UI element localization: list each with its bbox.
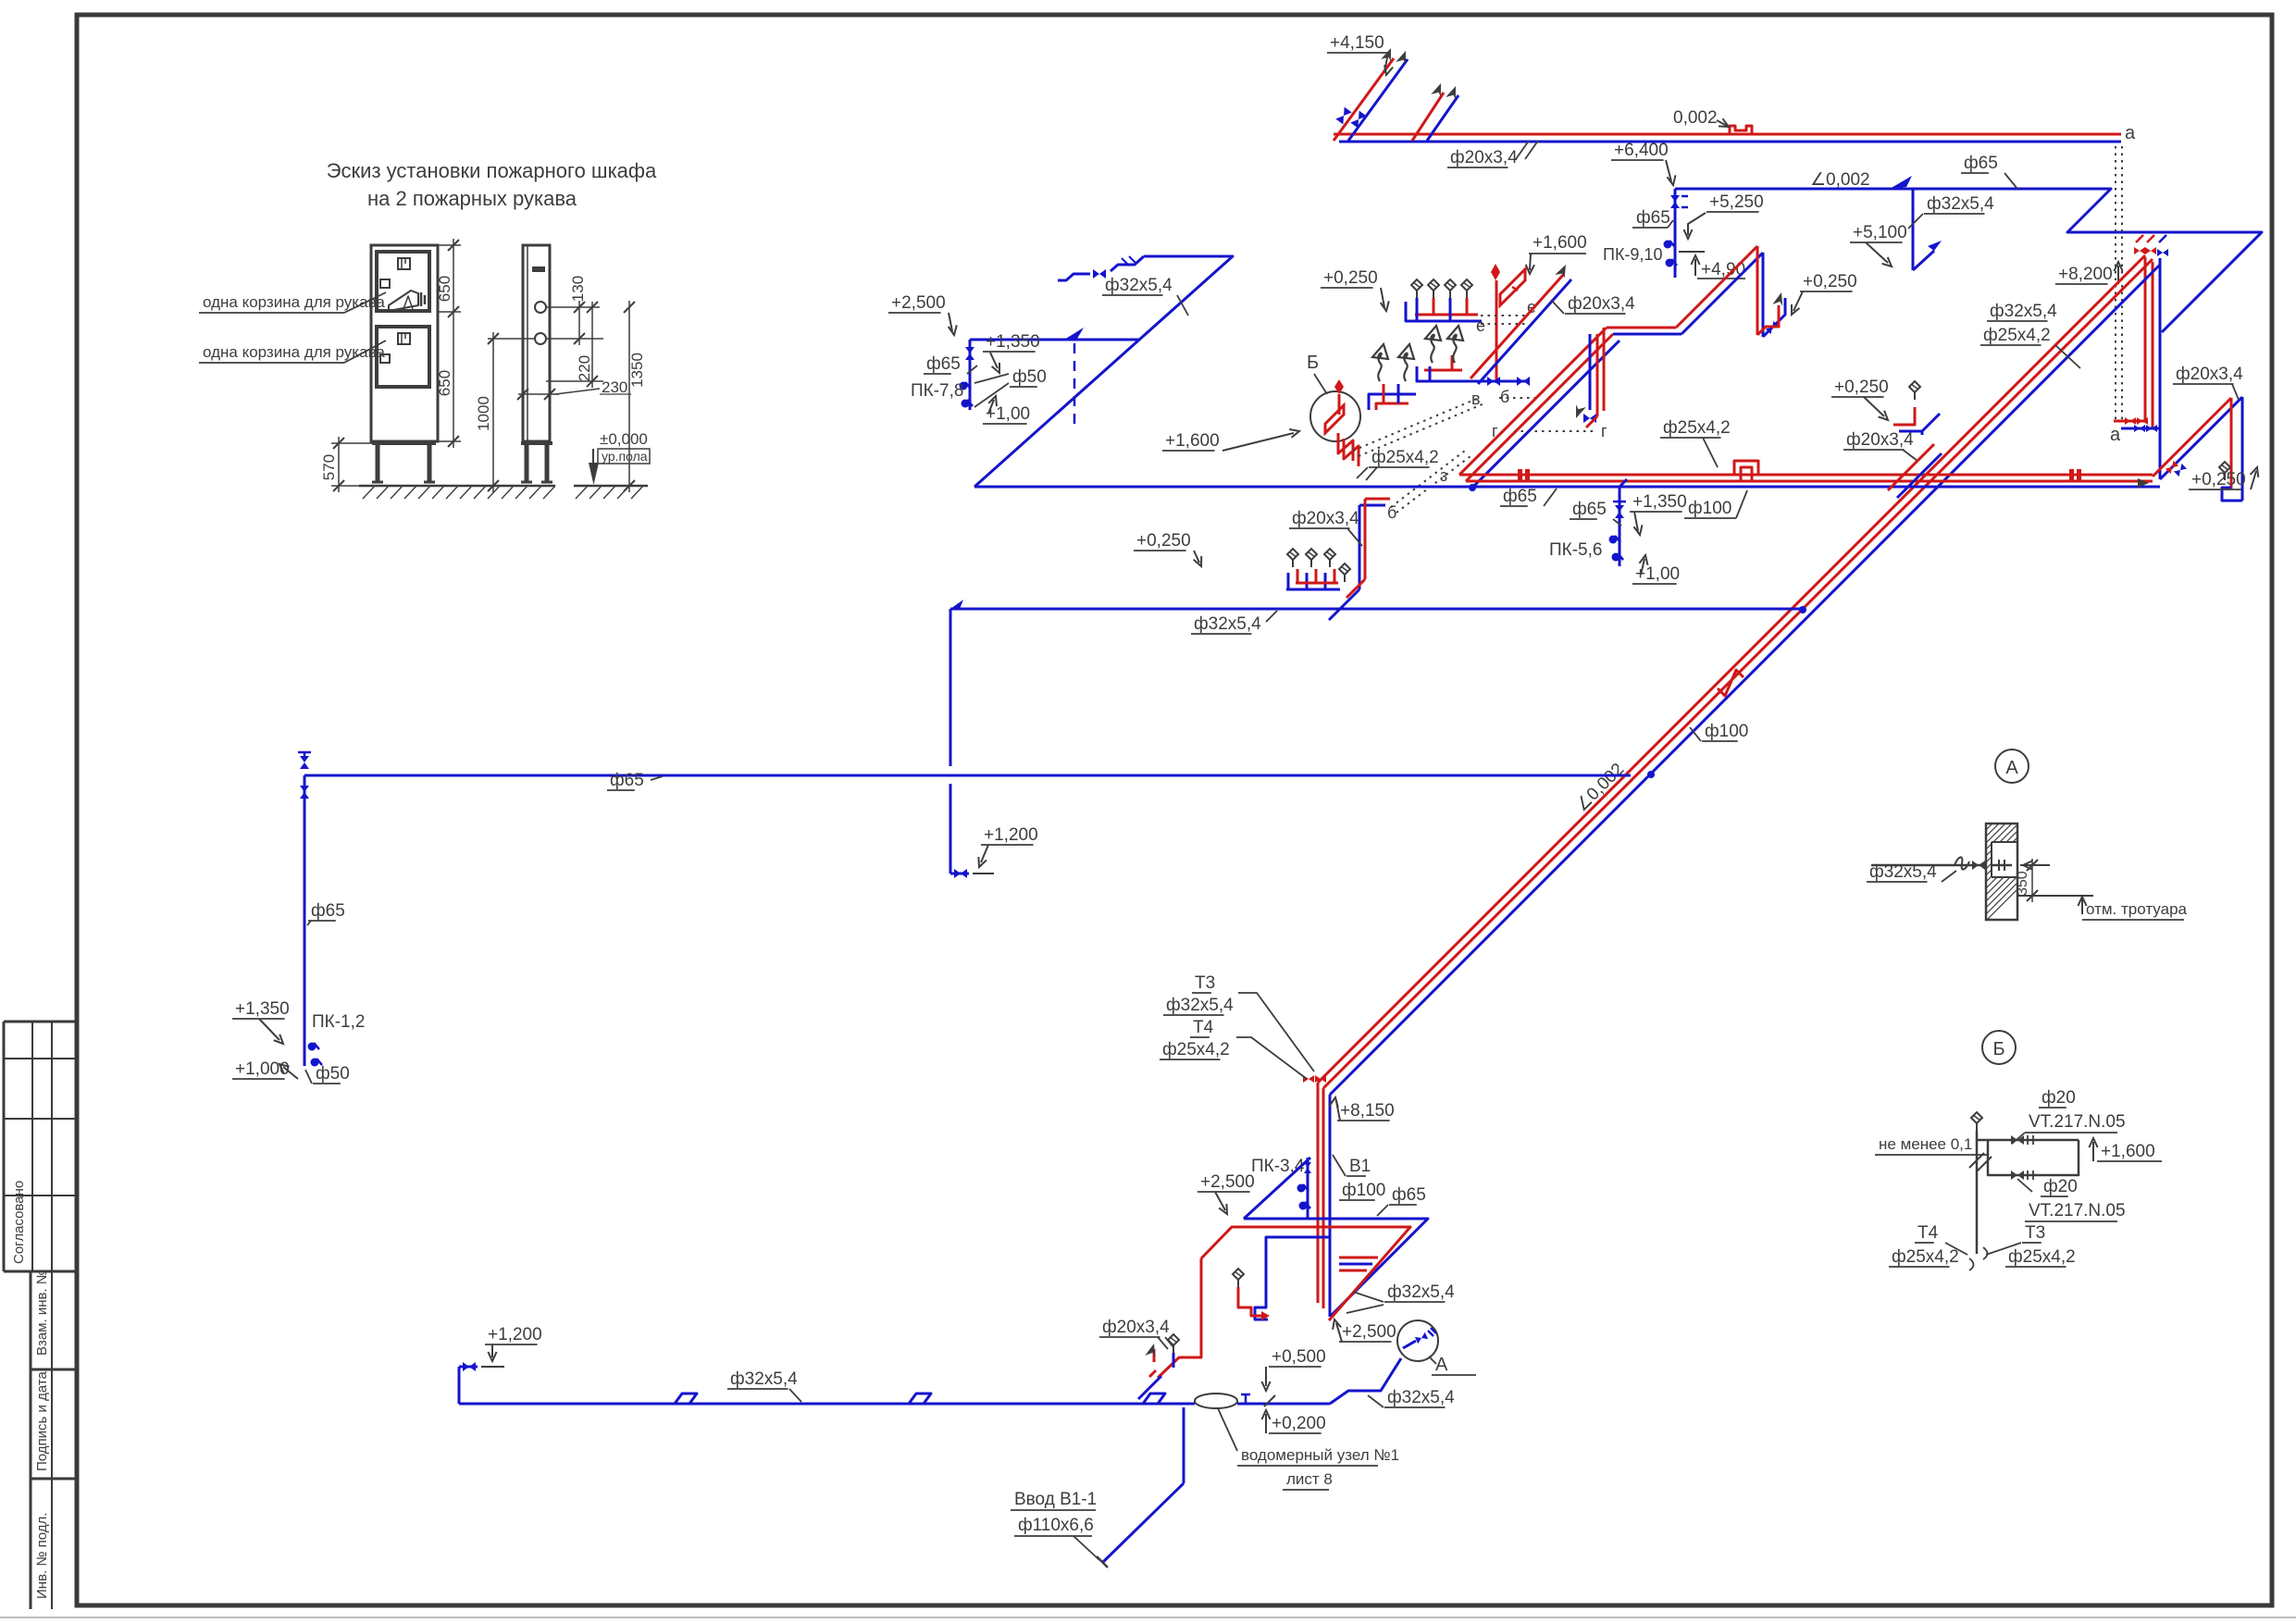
branch with +0,250 near diagonal: [1893, 407, 1915, 425]
pipe B1 ф65 at +6,400: [1675, 189, 2262, 332]
fire cabinet front view: [371, 245, 438, 441]
svg-text:VT.217.N.05: VT.217.N.05: [2029, 1112, 2126, 1132]
svg-text:1350: 1350: [628, 353, 646, 388]
svg-text:б: б: [1387, 503, 1396, 522]
middle manifold with showers: [1417, 366, 1527, 381]
риser group T3/T4/B1 at +8,200 top valves: [2134, 247, 2145, 254]
svg-text:ф50: ф50: [316, 1064, 350, 1084]
riser pair to +4,150 (first): [1334, 58, 1394, 141]
svg-text:ф32х5,4: ф32х5,4: [1387, 1282, 1455, 1302]
отм. тротуара level mark: [2017, 895, 2093, 897]
pipe ф20х3,4 upper pair: [1607, 327, 1676, 329]
svg-text:+1,200: +1,200: [488, 1325, 542, 1344]
svg-text:Согласовано: Согласовано: [11, 1181, 27, 1264]
branch down-left with +0,250 (б point): [1365, 498, 1390, 501]
lower manifold: [1369, 394, 1416, 410]
detail Б circle: [1982, 1031, 2016, 1064]
svg-text:В1: В1: [1349, 1157, 1371, 1176]
diagonal pair to +1,600 outlet: [1471, 274, 1564, 378]
valve on corner: [304, 775, 306, 1066]
svg-text:+1,200: +1,200: [984, 825, 1038, 845]
ground line with hatching: [359, 485, 555, 488]
svg-text:+2,500: +2,500: [1200, 1172, 1255, 1192]
pipe T3/B1 pair top horizontal run: [1334, 133, 2121, 136]
svg-text:не менее 0,1: не менее 0,1: [1879, 1135, 1972, 1153]
svg-text:ф32х5,4: ф32х5,4: [1194, 614, 1261, 634]
svg-text:ф32х5,4: ф32х5,4: [1990, 302, 2057, 321]
svg-text:Взам. инв. №: Взам. инв. №: [34, 1270, 50, 1356]
outlet +0,250 right of ПК-9,10: [1763, 298, 1785, 337]
svg-text:Т3: Т3: [2025, 1223, 2045, 1243]
cold branch to fixtures: [1255, 1237, 1330, 1319]
svg-text:0,002: 0,002: [1673, 108, 1718, 128]
blue riser B1: [2159, 258, 2162, 479]
red risers T3 T4: [2144, 257, 2147, 421]
svg-text:ф25х4,2: ф25х4,2: [2008, 1247, 2076, 1267]
insulation slashes: [1969, 1153, 1992, 1171]
branch г verticals: [1596, 334, 1599, 416]
pipe Т3/Т4 red pair horizontals: [1459, 474, 2153, 477]
svg-text:+5,100: +5,100: [1853, 223, 1907, 242]
cabinet dimensions: [438, 244, 461, 246]
svg-text:ПК-1,2: ПК-1,2: [312, 1012, 365, 1032]
svg-text:ф65: ф65: [311, 901, 345, 921]
rise to +4,90 peak: [1676, 246, 1757, 328]
circle А with tap: [1397, 1320, 1438, 1361]
detail А circle: [1995, 750, 2029, 783]
fire cabinet side view: [523, 245, 550, 441]
sink branch with safety tap: [1238, 1287, 1261, 1316]
washbasin stub ф20х3,4: [1149, 1370, 1156, 1377]
svg-text:650: 650: [436, 370, 453, 396]
risers T3 T4 B1 vertical: [1317, 1083, 1320, 1303]
водомерный узел ellipse: [1195, 1394, 1237, 1408]
drop to valve +1,200: [949, 609, 952, 766]
svg-text:ф32х5,4: ф32х5,4: [1105, 276, 1173, 295]
svg-text:ф25х4,2: ф25х4,2: [1162, 1040, 1230, 1059]
svg-text:∠0,002: ∠0,002: [1810, 170, 1870, 190]
svg-text:350: 350: [2015, 871, 2030, 896]
svg-text:ур.пола: ур.пола: [602, 449, 648, 464]
pipe ф32х5,4 long horizontal: [950, 608, 1803, 611]
svg-text:ф100: ф100: [1342, 1181, 1385, 1200]
branch ф32х5,4 down to +5,100: [1912, 189, 1915, 270]
svg-text:отм. тротуара: отм. тротуара: [2086, 900, 2188, 918]
svg-text:+2,500: +2,500: [1342, 1322, 1396, 1342]
svg-text:ф65: ф65: [1964, 154, 1998, 173]
upper manifold +0,250: [1406, 302, 1482, 321]
svg-text:ф20х3,4: ф20х3,4: [1568, 294, 1635, 314]
svg-text:Т4: Т4: [1193, 1018, 1214, 1037]
svg-text:a: a: [2125, 123, 2136, 143]
svg-text:ф32х5,4: ф32х5,4: [1166, 996, 1234, 1015]
svg-text:+1,600: +1,600: [1165, 431, 1220, 451]
svg-text:Т4: Т4: [1917, 1223, 1939, 1243]
right branch ф20х3,4 with +0,250: [2160, 397, 2242, 479]
svg-text:одна корзина для рукава: одна корзина для рукава: [203, 293, 385, 311]
label водомерный узел: [1218, 1408, 1237, 1451]
flow slope arrow on +6,400 line: [1890, 176, 1912, 189]
title block left strip: [4, 1021, 77, 1023]
svg-text:ПК-7,8: ПК-7,8: [911, 381, 963, 401]
dim 350: [2031, 859, 2033, 902]
riser pair to +4,150 (second): [1412, 93, 1444, 141]
svg-text:650: 650: [436, 276, 453, 302]
lower-left manifold +0,250: [1286, 588, 1340, 591]
svg-text:±0,000: ±0,000: [600, 430, 648, 448]
node a stubs with valves: [2114, 420, 2145, 423]
pipe ф65 horizontal + triangle: [1244, 1219, 1428, 1317]
fire riser ПК-9,10: [1674, 189, 1677, 278]
svg-text:1000: 1000: [475, 396, 492, 431]
svg-text:Б: Б: [1307, 353, 1319, 373]
red zigzag below Б: [1338, 433, 1353, 461]
svg-text:ф65: ф65: [610, 771, 644, 790]
svg-text:ф65: ф65: [1392, 1185, 1426, 1205]
expansion zigzag on diagonal: [1718, 670, 1744, 696]
svg-text:+1,00: +1,00: [986, 404, 1030, 424]
svg-text:+5,250: +5,250: [1709, 192, 1764, 212]
svg-text:на 2 пожарных рукава: на 2 пожарных рукава: [367, 187, 577, 210]
pipe ф32х5,4 Z-run with diagonal: [974, 256, 1233, 487]
svg-text:ф100: ф100: [1705, 722, 1748, 741]
svg-text:+1,600: +1,600: [1533, 233, 1587, 253]
continuation to circle А: [1330, 1358, 1401, 1404]
svg-text:ф32х5,4: ф32х5,4: [1927, 194, 1994, 214]
svg-text:ф32х5,4: ф32х5,4: [1387, 1388, 1455, 1407]
svg-text:Б: Б: [1992, 1039, 2004, 1059]
hidden drop to diagonal: [1074, 343, 1076, 426]
svg-text:+0,500: +0,500: [1272, 1347, 1326, 1367]
svg-text:130: 130: [569, 276, 587, 302]
svg-text:Инв. № подл.: Инв. № подл.: [34, 1513, 50, 1599]
svg-text:е: е: [1476, 316, 1485, 335]
svg-text:a: a: [2110, 425, 2121, 445]
svg-text:VT.217.N.05: VT.217.N.05: [2029, 1201, 2126, 1220]
dotted leader lines: [1353, 398, 1479, 451]
svg-text:230: 230: [602, 378, 627, 396]
svg-text:ф20х3,4: ф20х3,4: [1292, 509, 1359, 528]
valves б в: [1487, 377, 1500, 386]
svg-text:ф32х5,4: ф32х5,4: [1869, 862, 1937, 882]
pipe B1 ф65 center horizontal: [974, 486, 2160, 489]
svg-text:+0,250: +0,250: [1803, 272, 1857, 291]
expansion loop on top red pipe: [1730, 126, 1752, 134]
svg-text:Т3: Т3: [1195, 973, 1215, 993]
svg-text:+4,150: +4,150: [1330, 33, 1384, 53]
svg-text:ф25х4,2: ф25х4,2: [1892, 1247, 1959, 1267]
svg-text:+1,350: +1,350: [986, 332, 1040, 352]
svg-text:А: А: [2005, 758, 2018, 778]
fire cabinet ПК-1,2: [308, 1043, 316, 1051]
Т3 Т4 В1 triple diagonal into mains: [1459, 328, 1607, 475]
small tap after meter: [1241, 1394, 1250, 1404]
label +4,90: [1679, 251, 1705, 253]
svg-text:ф25х4,2: ф25х4,2: [1371, 448, 1439, 467]
svg-text:ф100: ф100: [1688, 499, 1731, 518]
svg-text:ф20х3,4: ф20х3,4: [1846, 430, 1914, 450]
big diagonal T3 T4 B1 from bottom riser: [1318, 255, 2145, 1083]
svg-text:ПК-3,4: ПК-3,4: [1251, 1157, 1305, 1176]
svg-text:Ввод В1-1: Ввод В1-1: [1014, 1490, 1097, 1509]
svg-text:ф65: ф65: [926, 354, 961, 374]
svg-text:ф20: ф20: [2043, 1177, 2078, 1196]
svg-text:+1,600: +1,600: [2101, 1142, 2155, 1161]
svg-text:Эскиз установки пожарного шкаф: Эскиз установки пожарного шкафа: [327, 159, 657, 182]
svg-text:+1,350: +1,350: [235, 999, 290, 1019]
svg-text:ф25х4,2: ф25х4,2: [1983, 326, 2051, 345]
flex connection + valve at end: [1111, 256, 1144, 271]
ПК-3,4 pipes: [1244, 1158, 1310, 1219]
circle Б assembly: [1310, 391, 1360, 441]
svg-text:водомерный узел №1: водомерный узел №1: [1241, 1446, 1399, 1464]
svg-text:ф32х5,4: ф32х5,4: [730, 1369, 798, 1389]
svg-text:+8,150: +8,150: [1340, 1101, 1395, 1121]
wall with hatching: [1986, 824, 2017, 920]
svg-text:ф20: ф20: [2042, 1088, 2076, 1108]
svg-text:+1,350: +1,350: [1632, 492, 1687, 512]
fire riser ПК-7,8: [969, 340, 972, 410]
svg-text:ф20х3,4: ф20х3,4: [1102, 1318, 1170, 1337]
svg-text:+6,400: +6,400: [1614, 141, 1669, 160]
arrow from right: [2020, 864, 2050, 866]
expansion loop on red pair: [1734, 461, 1758, 475]
svg-text:ф25х4,2: ф25х4,2: [1663, 418, 1731, 438]
svg-text:ф65: ф65: [1503, 487, 1537, 506]
section markers a-a dotted lines: [2115, 146, 2116, 424]
pipe ф65 long horizontal: [304, 774, 1631, 777]
svg-text:лист 8: лист 8: [1286, 1470, 1333, 1488]
junction dot of ф65 line on diagonal: [1647, 771, 1655, 778]
svg-text:+2,500: +2,500: [891, 293, 946, 313]
svg-text:570: 570: [320, 454, 338, 480]
svg-text:ф20х3,4: ф20х3,4: [1450, 148, 1518, 167]
svg-text:+0,250: +0,250: [1323, 268, 1378, 288]
svg-text:ф65: ф65: [1636, 208, 1670, 228]
svg-text:з: з: [1440, 466, 1447, 485]
svg-text:220: 220: [576, 355, 593, 381]
diagonal stubs crossing: [1888, 444, 1934, 490]
svg-text:ф20х3,4: ф20х3,4: [2176, 365, 2243, 384]
svg-text:А: А: [1435, 1355, 1448, 1375]
svg-text:+8,200: +8,200: [2058, 265, 2113, 284]
red/blue stubs inside: [1339, 1257, 1378, 1259]
break squiggle at bottom: [1969, 1247, 1988, 1270]
left end valve +1,200: [458, 1367, 461, 1404]
pipe through wall: [1871, 864, 1986, 867]
svg-text:ф110х6,6: ф110х6,6: [1018, 1516, 1094, 1535]
svg-text:+0,250: +0,250: [1136, 531, 1191, 551]
flex + valve: [1955, 857, 1969, 869]
red hot-water riser with loop (point Б distribution): [1496, 280, 1498, 383]
svg-text:+0,250: +0,250: [1834, 378, 1889, 397]
svg-text:+0,250: +0,250: [2191, 470, 2246, 489]
svg-text:Подпись и дата: Подпись и дата: [34, 1370, 50, 1471]
red branch triangle: [1201, 1227, 1410, 1320]
svg-text:ф65: ф65: [1572, 500, 1607, 519]
fire riser ПК-5,6: [1620, 479, 1627, 487]
Ввод В1-1 entry: [1183, 1407, 1185, 1483]
svg-text:+0,200: +0,200: [1272, 1414, 1326, 1433]
polotentsesushitel loop: [1976, 1131, 1979, 1254]
svg-text:ПК-9,10: ПК-9,10: [1603, 245, 1662, 264]
svg-text:одна корзина для рукава: одна корзина для рукава: [203, 343, 385, 361]
svg-text:ф50: ф50: [1012, 367, 1047, 387]
svg-text:г: г: [1601, 422, 1607, 440]
svg-text:ПК-5,6: ПК-5,6: [1549, 540, 1602, 560]
branch horizontal +2,500: [970, 339, 1139, 341]
pipe ф32х5,4 bottom main: [459, 1403, 1186, 1406]
flange marks on red pair: [1518, 469, 1522, 480]
